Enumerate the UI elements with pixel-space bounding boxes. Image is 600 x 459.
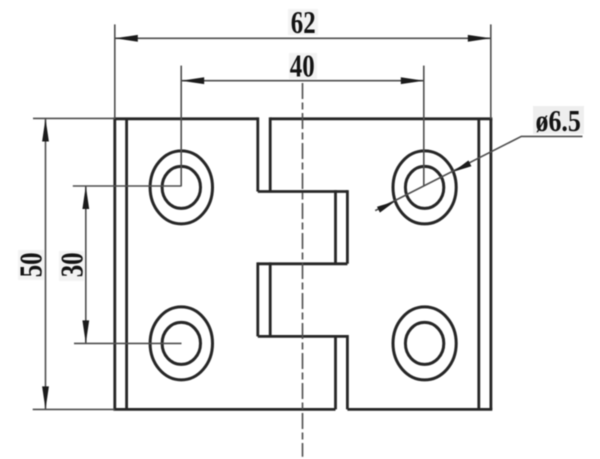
hinge outline: middle knuckle gap verticals (lower pair) bbox=[258, 262, 270, 336]
dim 40: dimension line bbox=[181, 80, 424, 82]
dim 62: extension line right bbox=[490, 24, 492, 118]
svg-text:62: 62 bbox=[291, 6, 316, 40]
dim 50: extension line bottom bbox=[33, 408, 115, 410]
dim 50: arrowhead bottom bbox=[42, 386, 49, 409]
hinge outline: bottom edge right part bbox=[347, 408, 492, 411]
svg-text:50: 50 bbox=[15, 252, 49, 277]
hole top-right countersink bbox=[393, 151, 456, 224]
hole bottom-right countersink bbox=[393, 307, 456, 380]
hole bottom-left bore bbox=[162, 322, 200, 364]
dim 50: arrowhead top bbox=[42, 119, 49, 142]
dim 30: arrowhead top bbox=[82, 186, 89, 209]
dim 62: extension line left bbox=[114, 24, 116, 118]
hinge outline: bottom edge left part bbox=[113, 408, 335, 411]
centerline (hinge pin axis, dashed) bbox=[302, 83, 304, 457]
hole bottom-left countersink bbox=[150, 307, 212, 380]
dim 40: extension line right (to top-right hole center) bbox=[423, 66, 425, 187]
svg-text:40: 40 bbox=[290, 50, 315, 84]
hinge outline: left leaf inner fold line bbox=[125, 119, 128, 410]
hinge outline: top edge left part bbox=[113, 117, 257, 120]
hinge outline: knuckle step line 1 bbox=[258, 190, 348, 193]
hole top-left bore bbox=[162, 166, 200, 208]
dim 62: arrowhead left bbox=[115, 35, 138, 42]
dim 62: arrowhead right bbox=[468, 35, 491, 42]
leader ø6.5: diagonal line through top-right hole bbox=[375, 136, 582, 210]
hinge outline: top knuckle gap right vertical bbox=[269, 117, 272, 191]
hinge outline: right leaf inner fold line bbox=[477, 119, 480, 410]
svg-text:ø6.5: ø6.5 bbox=[536, 105, 581, 138]
hinge outline: knuckle step line 3 bbox=[258, 335, 348, 338]
dim 30: extension line top (to top-left hole center) bbox=[73, 185, 182, 187]
dim 40: arrowhead right bbox=[401, 77, 424, 84]
hinge outline: top edge right part bbox=[270, 117, 492, 120]
hole top-right bore bbox=[405, 166, 443, 208]
hole top-left countersink bbox=[150, 151, 212, 224]
dim 30: extension line bottom (to bottom-left hole center) bbox=[74, 342, 182, 344]
hinge outline: left leaf left edge bbox=[113, 119, 116, 410]
dim 30: dimension line bbox=[85, 186, 87, 343]
dim 40: arrowhead left bbox=[181, 77, 204, 84]
hinge outline: bottom knuckle gap verticals bbox=[336, 335, 348, 409]
svg-text:30: 30 bbox=[56, 252, 90, 277]
hinge outline: middle knuckle gap verticals (upper pair) bbox=[336, 190, 348, 264]
dim 50: extension line top bbox=[33, 117, 115, 119]
dim 50: dimension line bbox=[45, 119, 47, 410]
leader ø6.5: arrowhead upper-right (tip on countersink circle) bbox=[453, 160, 471, 172]
hinge outline: top knuckle gap left vertical bbox=[256, 117, 259, 191]
dim 62: dimension line bbox=[115, 37, 491, 39]
dim 40: extension line left (to top-left hole center) bbox=[180, 66, 182, 187]
hinge outline: right leaf right edge bbox=[489, 119, 492, 410]
hole bottom-right bore bbox=[405, 322, 443, 364]
dim 30: arrowhead bottom bbox=[82, 320, 89, 343]
hinge outline: knuckle step line 2 bbox=[258, 262, 348, 265]
faint text background boxes bbox=[18, 9, 584, 281]
leader ø6.5: arrowhead lower-left (tip on countersink circle) bbox=[377, 201, 395, 213]
